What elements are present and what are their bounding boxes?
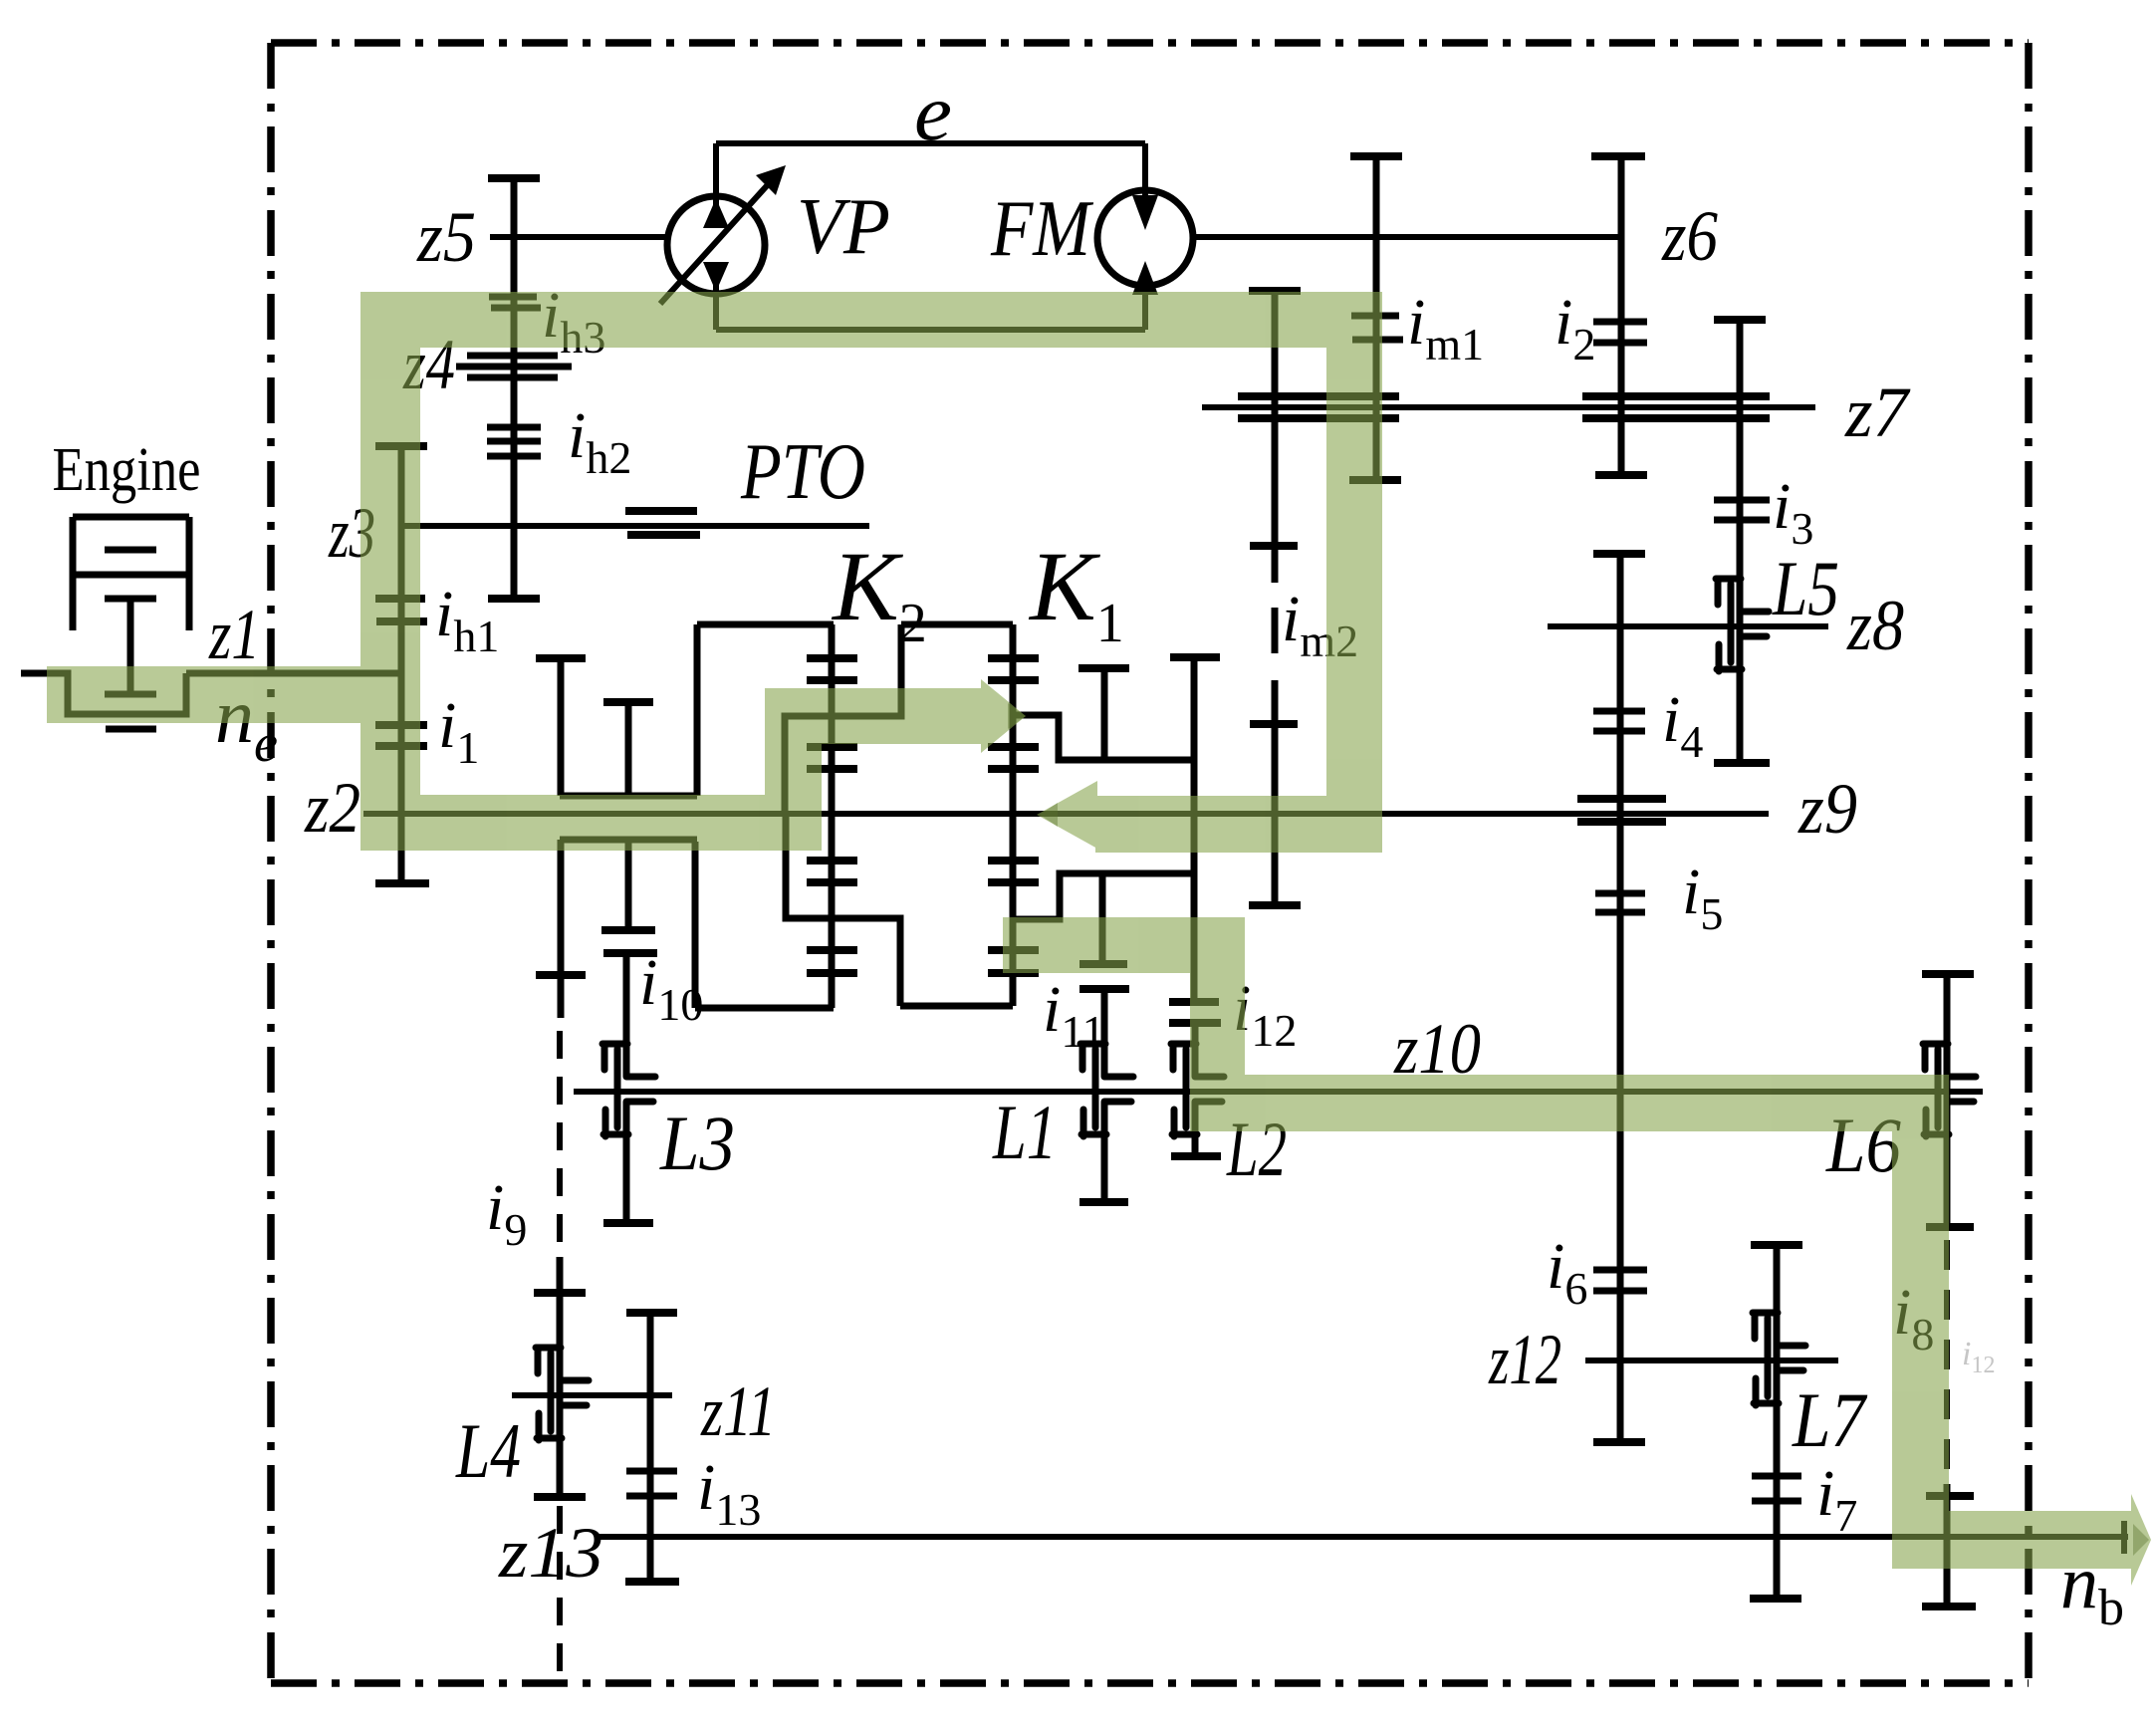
- im1 shaft end bar: [1349, 476, 1401, 484]
- gear z4 bar bottom: [467, 374, 558, 381]
- L3 gear stem upper: [623, 953, 630, 1077]
- mesh i7 bar lower: [1752, 1498, 1801, 1505]
- i3 shaft top bar: [1714, 316, 1766, 324]
- K1 plate bar 7: [988, 946, 1039, 954]
- engine big-end bearing: [105, 691, 156, 698]
- synchronizer L7: [1753, 1313, 1805, 1405]
- L6 shaft top bar: [1922, 970, 1974, 978]
- power flow highlight band: [47, 292, 2151, 1586]
- im2 shaft seg3: [1272, 680, 1279, 905]
- mesh ih3 bar lower: [491, 305, 541, 312]
- hydro column vertical: [511, 178, 518, 599]
- L3 gear stem lower: [623, 1102, 630, 1223]
- im2 shaft seg2: [1272, 608, 1279, 653]
- svg-text:VP: VP: [797, 183, 890, 271]
- i3 shaft vertical: [1737, 320, 1744, 763]
- shaft z7 line: [1202, 404, 1815, 410]
- VP arrow down: [703, 262, 729, 292]
- engine cylinder bottom: [73, 572, 189, 579]
- K2 carrier gear2 bar: [603, 698, 653, 706]
- hydro column end bar: [488, 595, 540, 603]
- K1 hub output bottom: [1014, 873, 1196, 919]
- im2 gear tick upper: [1250, 542, 1298, 550]
- VP variable slash: [660, 180, 772, 304]
- L1 gear stem lower: [1101, 1102, 1108, 1202]
- K2 carrier gear2 stem: [625, 702, 632, 796]
- L1 gear end bar: [1079, 1198, 1128, 1206]
- mesh i1 bar lower: [375, 742, 427, 750]
- i9 dashed shaft lower: [557, 1506, 563, 1681]
- svg-text:z13: z13: [498, 1513, 603, 1593]
- L4 shaft end bar: [534, 1493, 586, 1501]
- gear z3 top bar: [375, 442, 427, 450]
- L6 stem upper: [1944, 974, 1951, 1227]
- K1 plate bar 6: [988, 878, 1039, 886]
- svg-text:z8: z8: [1846, 586, 1904, 665]
- L7 shaft vertical: [1774, 1245, 1781, 1599]
- FM arrow up: [1132, 261, 1158, 295]
- L1 gear stem upper: [1101, 989, 1108, 1077]
- hydraulic line e bottom: [716, 327, 1145, 333]
- K2 plate bar 4: [807, 765, 857, 773]
- svg-text:z2: z2: [304, 768, 360, 848]
- L6 stem lower: [1944, 1484, 1951, 1606]
- L6 stem dashed: [1944, 1240, 1950, 1484]
- K2 carrier gear1 bar: [536, 654, 586, 662]
- gear z9 bar upper: [1577, 795, 1666, 803]
- i6 shaft end bar: [1593, 1438, 1645, 1446]
- synchronizer L4: [536, 1348, 589, 1440]
- VP bottom stem: [713, 263, 719, 330]
- K2 drum top: [697, 621, 834, 628]
- FM top stem: [1142, 143, 1148, 199]
- K1 output gearA stem: [1101, 668, 1108, 760]
- synchronizer L1: [1080, 1044, 1133, 1136]
- z11-i13 shaft end bar: [625, 1578, 679, 1586]
- svg-text:z5: z5: [416, 197, 476, 277]
- z6 shaft end bar: [1595, 471, 1647, 479]
- svg-text:z9: z9: [1797, 769, 1857, 849]
- input shaft end bar: [375, 879, 429, 887]
- mesh i5 bar lower: [1595, 909, 1645, 916]
- border right: [2025, 43, 2033, 1683]
- K1 plate bar 4: [988, 765, 1039, 773]
- mesh im1 bar lower: [1352, 337, 1403, 344]
- K1 plate bar 2: [988, 676, 1039, 684]
- K2 carrier top rail: [560, 793, 697, 800]
- gear z9 bar lower: [1577, 818, 1666, 826]
- L2 gear stem upper: [1192, 1023, 1199, 1077]
- K1 drum top: [901, 621, 1013, 628]
- im2 shaft top bar: [1249, 287, 1301, 295]
- L4 shaft solid: [557, 1257, 564, 1497]
- mesh ih1 bar upper: [375, 595, 425, 603]
- mesh i7 bar upper: [1752, 1473, 1801, 1480]
- shaft z13 line: [598, 1534, 2128, 1540]
- tip K1: [1008, 703, 1026, 729]
- engine connecting rod: [127, 599, 134, 693]
- mesh i5 bar upper: [1595, 890, 1645, 897]
- K2 plate stack shaft: [829, 624, 836, 1008]
- shaft z1: [186, 670, 401, 677]
- synchronizer L5: [1716, 579, 1769, 671]
- i3 shaft end bar: [1714, 759, 1770, 767]
- K1 output gearB stem: [1191, 657, 1198, 1002]
- svg-text:z1: z1: [208, 595, 260, 674]
- mesh i2 bar lower: [1593, 340, 1647, 347]
- VP slash arrowhead: [756, 165, 786, 195]
- K1 plate bar 8: [988, 969, 1039, 977]
- shaft z10 line: [574, 1089, 1983, 1095]
- K2 lower stem a: [558, 840, 565, 1018]
- engine cylinder top: [73, 514, 189, 521]
- K1 input jog top: [785, 624, 901, 814]
- K1 drum bottom: [900, 1003, 1013, 1010]
- mesh ih2 bar2: [487, 438, 541, 445]
- shaft z2-z9 line: [363, 811, 1769, 817]
- K2 plate bar 7: [807, 946, 857, 954]
- mesh ih3 bar upper: [489, 294, 537, 301]
- i4-i6 shaft vertical: [1617, 554, 1624, 1442]
- shaft z12 line: [1585, 1358, 1838, 1363]
- L7 shaft top bar: [1751, 1241, 1802, 1249]
- FM bottom stem: [1142, 287, 1148, 330]
- K2 drum left upper: [694, 624, 701, 796]
- svg-text:e: e: [914, 70, 952, 157]
- svg-text:L4: L4: [455, 1407, 521, 1494]
- tip z9: [1040, 803, 1058, 827]
- z11-i13 shaft vertical: [647, 1313, 654, 1582]
- mesh i4 bar upper: [1593, 708, 1645, 715]
- K2 plate bar 3: [807, 743, 857, 751]
- im1 shaft vertical: [1373, 156, 1380, 480]
- border top: [271, 39, 2029, 47]
- border left: [267, 43, 275, 1683]
- mesh i12 bar lower: [1169, 1019, 1221, 1027]
- gear z6 shaft top bar: [1591, 152, 1645, 160]
- K1 plate stack shaft: [1010, 624, 1017, 1006]
- gear z7 right bar upper: [1582, 392, 1770, 400]
- hydraulic line e top: [716, 140, 1145, 146]
- K2 lower stem a tick: [536, 971, 586, 979]
- svg-text:L1: L1: [992, 1089, 1057, 1175]
- K1 input jog bottom: [786, 814, 900, 1006]
- FM arrow down: [1132, 195, 1158, 230]
- L2 gear end bar: [1171, 1152, 1221, 1160]
- im1 shaft top bar: [1350, 152, 1402, 160]
- K2 drum left lower: [692, 842, 699, 1008]
- mesh i6 bar lower: [1593, 1288, 1647, 1295]
- gear z7 left bar upper: [1238, 392, 1399, 400]
- mesh i12 bar upper: [1169, 998, 1219, 1006]
- i4 shaft top bar: [1593, 550, 1645, 558]
- mesh i3 bar lower: [1714, 517, 1770, 524]
- gear z4 bar top: [467, 353, 558, 360]
- svg-text:L5: L5: [1772, 545, 1839, 631]
- shaft z5 line: [490, 234, 667, 240]
- i8 gear tick upper: [1926, 1223, 1974, 1231]
- K2 plate bar 1: [807, 654, 857, 662]
- shaft z3 PTO line: [401, 523, 869, 529]
- K1 plate bar 3: [988, 743, 1039, 751]
- border bottom: [271, 1679, 2029, 1687]
- mesh i2 bar upper: [1593, 319, 1647, 326]
- shaft z11 line: [512, 1392, 672, 1398]
- svg-text:PTO: PTO: [740, 428, 865, 516]
- mesh i6 bar upper: [1593, 1267, 1647, 1274]
- K1 output gearB bar: [1170, 653, 1220, 661]
- PTO coupling lower jaw: [627, 531, 700, 539]
- L3 gear end bar: [603, 1219, 653, 1227]
- motor FM circle: [1097, 190, 1193, 286]
- i11 upper gear stem: [1099, 873, 1106, 962]
- engine cylinder left: [70, 517, 77, 630]
- svg-text:z6: z6: [1661, 196, 1718, 276]
- mesh i13 bar upper: [626, 1468, 677, 1475]
- synchronizer L6: [1923, 1044, 1976, 1136]
- mesh i1 bar upper: [375, 721, 427, 729]
- FM output line: [1193, 234, 1621, 240]
- mesh im1 bar upper: [1351, 313, 1399, 320]
- svg-text:L7: L7: [1792, 1376, 1868, 1463]
- im2 gear tick lower: [1250, 720, 1298, 728]
- tip nb: [2133, 1524, 2149, 1556]
- svg-text:FM: FM: [990, 185, 1094, 273]
- mesh i10 bar lower: [603, 949, 657, 957]
- gear z4 bar mid: [456, 364, 572, 371]
- z11 gear shaft top bar: [626, 1309, 677, 1317]
- K1 hub output top: [1013, 715, 1196, 760]
- z13 end tick: [2121, 1521, 2127, 1554]
- mesh ih2 bar1: [487, 424, 541, 431]
- mesh i4 bar lower: [1593, 728, 1645, 735]
- L2 gear stem lower: [1192, 1102, 1199, 1156]
- gear z7 right bar lower: [1582, 414, 1770, 422]
- PTO coupling upper jaw: [625, 507, 697, 515]
- synchronizer L3: [602, 1044, 655, 1136]
- mesh i11 lower bar: [1079, 985, 1129, 993]
- L4 gear tick: [534, 1289, 586, 1297]
- K2 carrier bottom rail: [560, 837, 697, 844]
- svg-text:z12: z12: [1488, 1320, 1561, 1399]
- engine cylinder right: [186, 517, 193, 630]
- K2 plate bar 5: [807, 857, 857, 865]
- mesh i3 bar upper: [1714, 497, 1770, 504]
- pump VP circle: [667, 196, 765, 294]
- gear z7 left bar lower: [1238, 414, 1399, 422]
- VP top stem: [713, 143, 719, 228]
- engine sump line: [106, 726, 156, 733]
- svg-text:z7: z7: [1844, 372, 1911, 452]
- svg-text:L3: L3: [659, 1100, 735, 1186]
- K2 plate bar 6: [807, 878, 857, 886]
- K1 plate bar 1: [988, 654, 1039, 662]
- K2 carrier gear1 stem: [558, 658, 565, 796]
- i9 dashed shaft upper: [557, 1031, 563, 1257]
- shaft z8 line: [1548, 623, 1828, 629]
- synchronizer L2: [1171, 1044, 1224, 1136]
- svg-text:z11: z11: [700, 1371, 776, 1451]
- z6 shaft vertical: [1618, 156, 1625, 475]
- i8 gear tick lower: [1926, 1492, 1974, 1500]
- K2 lower stem b (i10 gear): [625, 840, 632, 930]
- mesh i10 bar upper: [601, 926, 655, 934]
- svg-text:Engine: Engine: [53, 436, 201, 504]
- input shaft vertical: [398, 446, 405, 883]
- engine crosshead: [105, 596, 156, 603]
- K2 plate bar 8: [807, 969, 857, 977]
- im2 shaft end bar: [1249, 901, 1301, 909]
- im2 shaft seg1: [1272, 291, 1279, 583]
- L7 shaft end bar: [1750, 1595, 1801, 1603]
- K2 drum bottom: [695, 1005, 834, 1012]
- engine crankshaft: [21, 673, 186, 714]
- i11 upper gear bar: [1079, 960, 1127, 968]
- mesh ih2 bar3: [487, 453, 541, 460]
- K2 plate bar 2: [807, 676, 857, 684]
- K1 plate bar 5: [988, 857, 1039, 865]
- L6 shaft end bar: [1922, 1603, 1976, 1610]
- mesh i13 bar lower: [626, 1493, 677, 1500]
- VP arrow up: [703, 198, 729, 228]
- gear z5 shaft top bar: [488, 174, 540, 182]
- engine piston: [105, 547, 156, 554]
- mesh ih1 bar lower: [376, 618, 427, 625]
- K1 output gearA bar: [1078, 664, 1129, 672]
